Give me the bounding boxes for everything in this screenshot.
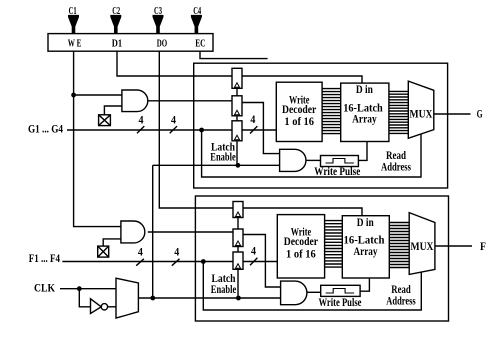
clock triangle L4: [236, 212, 241, 217]
label Read Address 2: [386, 282, 416, 307]
latch L3: [232, 121, 242, 141]
wire L4 out to D in: [243, 208, 362, 216]
and-gate A1: [122, 90, 148, 112]
latch L1: [232, 68, 242, 88]
node latch enable dot bottom: [236, 296, 241, 301]
svg-text:1 of 16: 1 of 16: [284, 114, 314, 128]
bus slash G 1: [137, 126, 144, 133]
input arrow C1: [68, 15, 78, 33]
connection box X2: [98, 246, 109, 257]
svg-text:Enable: Enable: [210, 149, 236, 163]
wire L5 out to write AND: [243, 235, 281, 288]
svg-text:G1 ... G4: G1 ... G4: [28, 122, 63, 136]
svg-text:F1 ... F4: F1 ... F4: [29, 251, 60, 265]
latch L5: [233, 229, 243, 247]
wire inverter to clock mux: [108, 306, 116, 308]
wire write AND out: [306, 159, 321, 161]
and-gate A2: [121, 221, 145, 243]
svg-text:F: F: [480, 239, 486, 253]
wire G output: [434, 113, 471, 115]
wire write AND2 out: [307, 291, 321, 293]
wire F bus: [62, 261, 233, 263]
wire X1 to AND1: [104, 106, 122, 115]
wire clock link L5-L6: [237, 247, 239, 253]
wire WE vertical: [74, 51, 121, 226]
write pulse box 1: [321, 156, 359, 167]
wire L6 out to decoder: [243, 261, 277, 263]
wire CLK to inverter: [79, 289, 90, 307]
clock triangle L6: [236, 264, 241, 269]
wire latch enable riser: [152, 165, 154, 298]
clock mux M3: [116, 278, 138, 318]
bus slash F 2: [172, 259, 180, 266]
svg-text:MUX: MUX: [411, 239, 434, 253]
write decoder U1: [276, 82, 322, 141]
wire AND1 out to latch2: [148, 100, 232, 102]
node WE junction dot: [71, 93, 76, 98]
bus slash F 1: [136, 259, 144, 266]
block 1 outline: [194, 63, 448, 188]
and-gate write pulse 2: [281, 281, 307, 305]
svg-text:D1: D1: [112, 38, 122, 49]
latch L2: [232, 96, 242, 116]
wire latch enable top: [153, 164, 280, 166]
wire L2 out to write AND: [242, 103, 280, 154]
bus decoder to array 16 lines: [322, 89, 341, 134]
wire write pulse 2 to array: [360, 278, 369, 291]
wire F read address: [203, 262, 421, 311]
pulse symbol 2: [326, 289, 354, 294]
latch L4: [233, 202, 243, 218]
block 2 outline: [195, 196, 448, 321]
label Latch Enable bottom: [211, 271, 237, 296]
label Read Address 1: [381, 148, 411, 173]
control register box WE D1 DO EC: [48, 34, 213, 52]
clock triangle L5: [236, 241, 241, 246]
wire EC dangling: [200, 51, 268, 58]
wire DO vertical: [159, 51, 233, 208]
svg-text:4: 4: [174, 244, 179, 258]
svg-text:1 of 16: 1 of 16: [286, 246, 316, 260]
wire CLK: [60, 288, 116, 290]
bus array to mux 16 lines: [389, 91, 408, 133]
wire AND2 out to latch2b: [148, 231, 233, 233]
inverter N1: [91, 299, 102, 314]
node CLK junction dot: [77, 286, 82, 291]
node latch enable riser dot: [150, 296, 155, 301]
input arrow C3: [153, 15, 163, 33]
svg-text:Array: Array: [352, 112, 377, 126]
clock triangle L2: [235, 110, 240, 115]
latch array U4: [342, 216, 389, 278]
svg-text:Address: Address: [381, 160, 411, 174]
connection box X1: [99, 115, 111, 126]
write decoder U3: [277, 215, 324, 278]
and-gate write pulse 1: [280, 149, 306, 171]
svg-text:4: 4: [138, 244, 143, 258]
pulse symbol 1: [326, 159, 354, 164]
wire L1 out to D in: [242, 76, 362, 83]
node G bus junction dot: [199, 128, 204, 133]
svg-text:Array: Array: [354, 244, 378, 258]
svg-text:Write Pulse: Write Pulse: [319, 295, 362, 309]
svg-text:Enable: Enable: [211, 282, 237, 296]
svg-text:D in: D in: [357, 215, 374, 229]
bus slash L3 out: [250, 126, 257, 133]
label Latch Enable top: [210, 140, 236, 164]
wire D1 to latch: [117, 51, 232, 76]
bus decoder to array 16 lines bottom: [325, 221, 343, 268]
svg-text:4: 4: [171, 112, 176, 126]
wire X2 to AND2: [103, 239, 121, 246]
bus slash L6 out: [250, 258, 257, 265]
svg-text:G: G: [477, 107, 483, 121]
wire F output: [435, 245, 472, 247]
wire clock link L6 to latch enable: [237, 269, 239, 298]
latch array U2: [341, 83, 389, 141]
node latch enable dot top: [236, 163, 241, 168]
svg-text:4: 4: [251, 244, 256, 258]
svg-text:MUX: MUX: [410, 107, 433, 121]
wire clock link L4-L5: [237, 218, 239, 230]
wire L3 out to decoder: [242, 129, 276, 131]
clock triangle L3: [235, 135, 240, 140]
svg-text:4: 4: [139, 112, 144, 126]
wire WE to AND1: [74, 94, 122, 96]
svg-text:D in: D in: [356, 82, 373, 96]
clock triangle L1: [235, 83, 240, 88]
wire clock link L1-L2: [236, 88, 238, 96]
node F bus junction dot: [201, 259, 206, 264]
svg-text:CLK: CLK: [34, 280, 56, 294]
svg-text:4: 4: [250, 112, 255, 126]
write pulse box 2: [321, 285, 360, 296]
wire G bus: [67, 129, 232, 131]
bus slash G 2: [170, 126, 177, 133]
mux M1: [408, 81, 434, 138]
wire G read address: [202, 130, 421, 177]
svg-text:Write Pulse: Write Pulse: [314, 164, 361, 178]
wire clock mux out latch enable: [138, 297, 280, 299]
bus array to mux 16 lines bottom: [389, 223, 409, 268]
latch L6: [233, 252, 243, 269]
input arrow C2: [111, 15, 121, 33]
svg-text:Address: Address: [386, 293, 416, 307]
svg-text:EC: EC: [195, 38, 205, 49]
svg-text:DO: DO: [157, 38, 168, 49]
mux M2: [409, 213, 435, 275]
wire clock link L2-L3: [236, 116, 238, 121]
wire write pulse to array: [358, 142, 367, 161]
input arrow C4: [191, 15, 201, 33]
wire clock link L3 to latch enable: [236, 141, 238, 166]
svg-text:W E: W E: [68, 38, 82, 49]
